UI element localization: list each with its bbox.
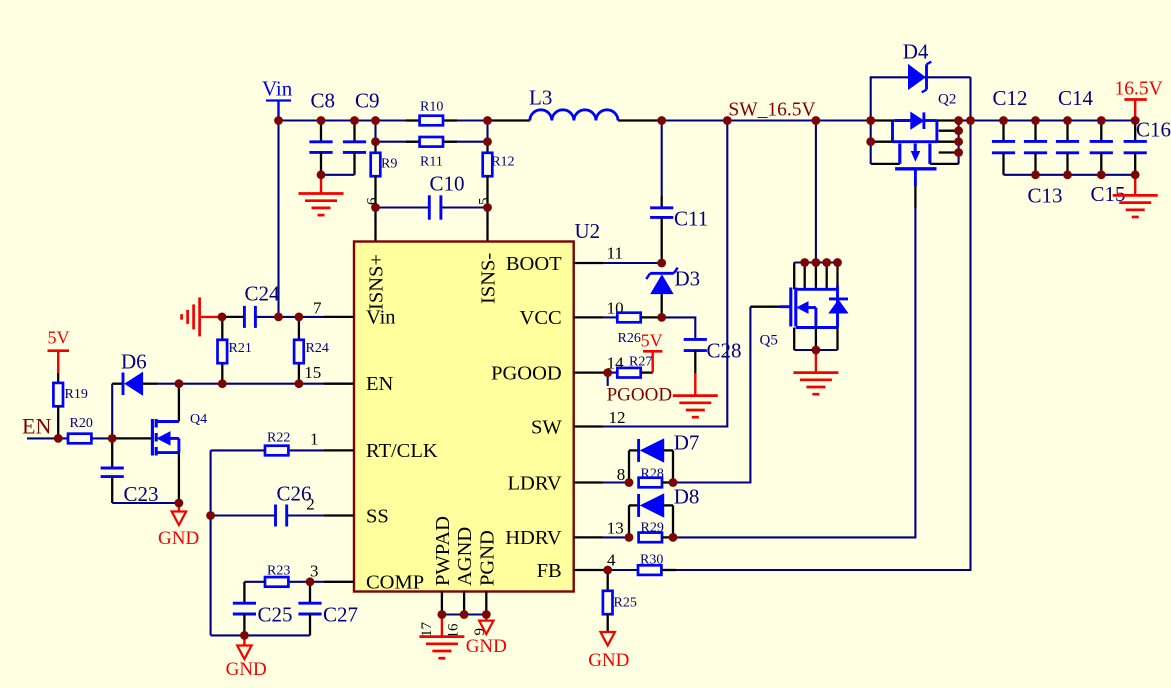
svg-text:HDRV: HDRV [505, 527, 562, 549]
svg-text:R26: R26 [618, 331, 641, 346]
capacitor C14 plates [1066, 121, 1068, 142]
svg-text:D6: D6 [121, 350, 147, 374]
svg-text:BOOT: BOOT [506, 253, 562, 275]
svg-text:COMP: COMP [366, 572, 424, 594]
body diode of Q5 [829, 297, 848, 300]
svg-text:C12: C12 [993, 86, 1028, 110]
svg-text:C16: C16 [1136, 118, 1171, 142]
svg-text:R24: R24 [306, 341, 329, 356]
svg-text:ISNS-: ISNS- [478, 253, 500, 304]
svg-text:EN: EN [366, 373, 394, 395]
svg-text:Q2: Q2 [938, 91, 956, 107]
capacitor C13 plates [1034, 121, 1036, 142]
wire R29 to Q2 gate [673, 208, 915, 537]
svg-text:12: 12 [609, 408, 626, 427]
pin 16 AGND [463, 592, 465, 615]
pin 2 SS [324, 514, 354, 516]
Q2 gate plate [895, 167, 936, 170]
svg-text:EN: EN [22, 414, 51, 439]
svg-text:R9: R9 [381, 157, 397, 172]
pin 4 FB [574, 569, 604, 571]
svg-text:GND: GND [226, 659, 267, 680]
svg-text:U2: U2 [575, 219, 601, 243]
ground earth below Q5 [815, 350, 817, 373]
wire L3 leads [488, 119, 530, 121]
svg-text:PWPAD: PWPAD [432, 516, 454, 586]
IC U2 body [354, 242, 574, 592]
svg-text:16.5V: 16.5V [1115, 79, 1163, 100]
svg-text:C13: C13 [1028, 184, 1063, 208]
svg-text:15: 15 [304, 363, 321, 382]
wire R28 to Q5 gate [673, 307, 750, 483]
junction dots [274, 116, 283, 125]
svg-text:PGOOD: PGOOD [607, 385, 672, 406]
svg-text:R12: R12 [491, 155, 514, 170]
ground earth below PWPAD/AGND [441, 615, 443, 637]
ground GND below R25 [601, 632, 615, 646]
svg-text:ISNS+: ISNS+ [366, 254, 388, 310]
pin 3 COMP [324, 581, 354, 583]
pin 5 ISNS- pin stub [486, 208, 488, 242]
pin 8 LDRV [574, 481, 604, 483]
svg-text:C10: C10 [430, 172, 465, 196]
wire bottom pin rail [442, 613, 486, 615]
svg-text:PGND: PGND [476, 530, 498, 586]
body diode of Q2 [911, 112, 924, 129]
ground GND below Q4 [178, 503, 180, 512]
svg-text:SW_16.5V: SW_16.5V [728, 100, 815, 121]
svg-text:5: 5 [477, 198, 493, 206]
wire main input bus [279, 119, 530, 121]
pin 1 RT/CLK [324, 449, 354, 451]
wire EN node to D6 [111, 384, 113, 439]
svg-text:C27: C27 [323, 603, 358, 627]
wire SW pin to bus [604, 121, 728, 427]
pin 15 EN [324, 383, 354, 385]
wire Vin vertical drop [277, 121, 279, 317]
svg-text:R22: R22 [267, 431, 290, 446]
ground earth below C8 [320, 175, 322, 194]
wire left vertical rail [210, 450, 212, 635]
svg-text:Q4: Q4 [190, 412, 207, 427]
wire EN input [27, 437, 68, 439]
svg-text:17: 17 [419, 622, 435, 638]
pin 11 BOOT [574, 262, 604, 264]
wire Q2 to right rail [959, 119, 971, 121]
svg-text:RT/CLK: RT/CLK [366, 440, 438, 462]
wire output bus [971, 119, 1136, 121]
svg-text:7: 7 [313, 299, 322, 318]
svg-text:C24: C24 [245, 282, 281, 306]
svg-text:11: 11 [607, 244, 623, 263]
svg-text:5V: 5V [641, 331, 663, 351]
svg-text:GND: GND [466, 636, 507, 657]
svg-text:C26: C26 [277, 482, 312, 506]
svg-text:8: 8 [617, 465, 626, 484]
wire bottom rail left [211, 634, 310, 636]
svg-text:C14: C14 [1058, 86, 1094, 110]
wire BOOT to C11/D3 node [604, 262, 662, 264]
svg-text:R25: R25 [614, 596, 637, 611]
pin 7 Vin [324, 316, 354, 318]
capacitor C15 plates [1100, 121, 1102, 142]
svg-text:6: 6 [365, 197, 381, 205]
svg-text:SW: SW [531, 416, 562, 438]
ground earth left of C24 [198, 297, 201, 336]
svg-text:D4: D4 [903, 40, 929, 64]
svg-text:D7: D7 [674, 430, 700, 454]
svg-text:Q5: Q5 [760, 332, 778, 348]
svg-text:D8: D8 [674, 485, 700, 509]
svg-text:VCC: VCC [520, 307, 562, 329]
pin 6 ISNS+ pin stub [374, 208, 376, 242]
ground earth below C16 [1134, 175, 1136, 196]
wire output cap bottom rail [1004, 174, 1136, 176]
svg-text:13: 13 [607, 519, 624, 538]
svg-text:C8: C8 [311, 88, 336, 112]
wire C23 to Q4 source [112, 502, 179, 504]
svg-text:SS: SS [366, 505, 389, 527]
wire row2 left stub [374, 121, 376, 142]
wire C8/C9 bottom link [321, 174, 355, 176]
svg-text:R20: R20 [70, 416, 93, 431]
svg-text:L3: L3 [529, 86, 552, 110]
wire row2 right stub [486, 121, 488, 142]
wire EN row [179, 383, 324, 385]
pin 14 PGOOD [574, 371, 604, 373]
capacitor C16 plates [1134, 121, 1136, 142]
Q2 drain pins [937, 119, 959, 121]
svg-text:LDRV: LDRV [508, 472, 562, 494]
wire LDRV to R28 [604, 481, 629, 483]
svg-text:1: 1 [310, 430, 319, 449]
pin 12 SW [574, 425, 604, 427]
svg-text:FB: FB [537, 560, 562, 582]
svg-text:Vin: Vin [366, 307, 396, 329]
svg-text:C9: C9 [355, 88, 380, 112]
svg-text:R21: R21 [229, 341, 252, 356]
svg-text:R10: R10 [420, 100, 443, 115]
ground GND below C25 [243, 635, 245, 645]
wire bus L3 to Q2 [618, 119, 871, 121]
svg-text:PGOOD: PGOOD [491, 362, 562, 384]
svg-text:D3: D3 [675, 267, 701, 291]
wire SW node vertical to C11 [661, 121, 663, 197]
capacitor C12 plates [1002, 121, 1004, 142]
wire VCC node to C28 [662, 317, 696, 339]
svg-text:GND: GND [588, 650, 629, 671]
svg-text:C25: C25 [258, 603, 293, 627]
net label PGOOD [607, 373, 609, 386]
svg-text:R19: R19 [65, 387, 88, 402]
svg-text:Vin: Vin [262, 77, 293, 101]
pin 13 HDRV [574, 536, 604, 538]
Q5 source pins [793, 328, 795, 351]
svg-text:GND: GND [158, 528, 199, 549]
svg-text:C28: C28 [707, 339, 742, 363]
svg-text:R11: R11 [420, 155, 443, 170]
pin 9 PGND [485, 592, 487, 615]
wire R30 to output rail [676, 77, 971, 570]
wire HDRV to R29 [604, 536, 629, 538]
svg-text:5V: 5V [48, 328, 70, 348]
svg-text:C11: C11 [674, 207, 708, 231]
ground GND below PGND [485, 615, 487, 621]
pin 10 VCC [574, 316, 604, 318]
ground earth below C28 [694, 373, 696, 395]
pin 17 PWPAD [441, 592, 443, 615]
svg-text:AGND: AGND [454, 527, 476, 586]
